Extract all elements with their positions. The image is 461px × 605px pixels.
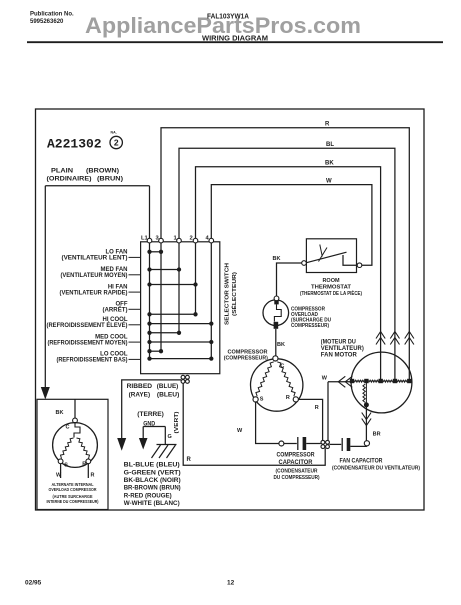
compressor terminal R: [293, 397, 298, 402]
svg-text:INTERNE DU COMPRESSEUR): INTERNE DU COMPRESSEUR): [47, 499, 99, 504]
wire brown L1 lead: [45, 186, 149, 388]
connector chevrons on fan motor drop: [405, 332, 414, 345]
wire compressor S to capacitor: [256, 402, 279, 444]
svg-text:R: R: [325, 121, 330, 127]
svg-text:12: 12: [227, 580, 235, 587]
svg-text:(VENTILATEUR RAPIDE): (VENTILATEUR RAPIDE): [60, 290, 128, 296]
wire junction to fan capacitor: [329, 443, 341, 445]
svg-text:R-RED (ROUGE): R-RED (ROUGE): [124, 492, 172, 499]
wire BL terminal1 to fan motor: [179, 148, 395, 379]
selector switch box: [141, 242, 220, 374]
connector chevrons on fan motor drop: [390, 332, 399, 345]
svg-text:(VENTILATEUR LENT): (VENTILATEUR LENT): [62, 256, 128, 262]
arrow brown lead to supply: [41, 387, 50, 400]
wire R terminal3 to fan motor: [161, 128, 409, 379]
svg-text:G-GREEN (VERT): G-GREEN (VERT): [124, 469, 181, 476]
svg-text:BL-BLUE (BLEU): BL-BLUE (BLEU): [124, 462, 180, 469]
wire plate to junction: [306, 443, 321, 445]
wire L1 lead-in: [149, 186, 151, 240]
connector block under switch: [181, 375, 185, 379]
compressor winding C-R: [277, 362, 295, 397]
compressor capacitor plates: [297, 437, 299, 450]
svg-text:W: W: [56, 473, 62, 479]
svg-text:DU COMPRESSEUR): DU COMPRESSEUR): [274, 475, 320, 481]
switch contact HI COOL fan row: [150, 313, 196, 315]
svg-text:(MOTEUR DU: (MOTEUR DU: [321, 339, 356, 345]
svg-text:C: C: [280, 364, 284, 370]
svg-text:(REFROIDISSEMENT MOYEN): (REFROIDISSEMENT MOYEN): [48, 340, 128, 346]
svg-text:2: 2: [190, 235, 193, 241]
svg-text:COMPRESSOR: COMPRESSOR: [277, 453, 316, 459]
svg-text:ROOM: ROOM: [322, 278, 340, 284]
svg-text:BR: BR: [373, 432, 381, 438]
diagram border: [36, 109, 425, 510]
thermostat terminal right: [357, 263, 362, 268]
svg-text:FAN CAPACITOR: FAN CAPACITOR: [340, 458, 384, 464]
svg-text:OVERLOAD COMPRESSOR: OVERLOAD COMPRESSOR: [49, 487, 98, 492]
switch column 1: [178, 243, 180, 333]
svg-text:(SÉLECTEUR): (SÉLECTEUR): [230, 272, 238, 316]
svg-text:(RAYE): (RAYE): [129, 392, 151, 398]
wire W fan motor: [328, 381, 351, 383]
switch contact LO COOL comp row: [150, 358, 212, 360]
overload element: [274, 304, 281, 321]
compressor circle: [251, 359, 303, 411]
svg-text:(BLEU): (BLEU): [157, 392, 179, 398]
alt lead W: [60, 464, 62, 478]
svg-text:BK: BK: [277, 342, 285, 348]
svg-text:(CONDENSATEUR: (CONDENSATEUR: [276, 469, 318, 475]
fan motor tap dot: [364, 402, 369, 407]
svg-text:C: C: [66, 425, 70, 431]
wire ribbed blue lead: [122, 380, 181, 439]
fan capacitor plates: [341, 438, 343, 451]
svg-text:(VENTILATEUR MOYEN): (VENTILATEUR MOYEN): [61, 273, 128, 279]
svg-text:PLAIN: PLAIN: [51, 169, 73, 175]
svg-text:(THERMOSTAT DE LA PIÈCE): (THERMOSTAT DE LA PIÈCE): [300, 289, 362, 297]
svg-text:(COMPRESSEUR): (COMPRESSEUR): [224, 356, 268, 362]
svg-text:COMPRESSEUR): COMPRESSEUR): [291, 323, 329, 329]
svg-text:R: R: [91, 473, 95, 479]
overload top contact: [274, 300, 278, 304]
wire capacitor link: [284, 443, 297, 445]
header rule: [27, 41, 443, 43]
svg-text:NA.: NA.: [111, 131, 117, 135]
arrow blue lead to supply: [117, 438, 126, 451]
wire fan capacitor to terminal: [350, 445, 367, 448]
wire R switch to capacitor junction: [183, 383, 325, 465]
fan capacitor terminal: [364, 441, 369, 446]
fan motor circle: [351, 352, 412, 413]
svg-text:R: R: [315, 405, 319, 411]
alternate compressor motor circle: [53, 423, 98, 468]
capacitor junction block: [321, 440, 325, 444]
svg-text:02/95: 02/95: [25, 580, 42, 587]
svg-text:(BRUN): (BRUN): [97, 177, 123, 183]
thermostat terminal left: [302, 261, 307, 266]
alt terminal R: [86, 459, 91, 464]
compressor winding C-S: [256, 362, 274, 397]
alt lead R: [87, 464, 89, 478]
switch contact LO FAN row: [150, 251, 162, 253]
svg-text:S: S: [64, 463, 68, 469]
wire BK terminal2 to fan motor: [196, 167, 381, 379]
svg-text:(CONDENSATEUR DU VENTILATEUR): (CONDENSATEUR DU VENTILATEUR): [332, 465, 420, 471]
wire compressor R to junction: [298, 399, 322, 440]
switch contact MED COOL fan row: [150, 332, 180, 334]
svg-text:COMPRESSOR: COMPRESSOR: [228, 349, 269, 355]
room thermostat box: [306, 239, 356, 273]
svg-text:(BLUE): (BLUE): [157, 384, 179, 390]
svg-text:W: W: [326, 179, 332, 185]
svg-text:S: S: [260, 397, 264, 403]
thermostat actuator marks: [319, 245, 328, 262]
alt overload element: [74, 423, 80, 438]
switch contact MED FAN row: [150, 269, 180, 271]
fan motor winding line: [352, 380, 412, 382]
svg-text:R: R: [286, 395, 290, 401]
switch contact MED COOL comp row: [150, 341, 212, 343]
alt winding C-R: [77, 438, 90, 459]
switch column 2: [195, 243, 197, 314]
svg-text:L1: L1: [141, 235, 149, 241]
alt winding C-S: [61, 438, 74, 459]
switch contact HI FAN row: [150, 284, 196, 286]
connector chevrons on fan motor drop: [376, 332, 385, 345]
wire ground bracket: [143, 427, 165, 445]
svg-text:BR-BROWN (BRUN): BR-BROWN (BRUN): [124, 485, 181, 492]
overload bottom contact: [274, 322, 279, 329]
wire overload to compressor: [275, 329, 277, 356]
fan motor terminals: [350, 379, 354, 383]
thermostat blade: [306, 252, 347, 263]
switch column L1: [149, 243, 151, 359]
switch column 4: [210, 243, 212, 359]
svg-text:(ARRÊT): (ARRÊT): [103, 306, 128, 314]
svg-text:A221302: A221302: [47, 137, 102, 152]
ground symbol: [157, 444, 177, 446]
svg-text:(VERT): (VERT): [174, 411, 180, 433]
svg-text:(ORDINAIRE): (ORDINAIRE): [47, 177, 92, 183]
compressor overload circle: [263, 300, 289, 326]
svg-text:SELECTOR SWITCH: SELECTOR SWITCH: [225, 263, 231, 325]
svg-text:VENTILATEUR): VENTILATEUR): [321, 346, 364, 352]
svg-text:5995263620: 5995263620: [30, 19, 64, 25]
selector switch terminals L1 3 1 2 4: [147, 238, 152, 243]
svg-text:THERMOSTAT: THERMOSTAT: [311, 284, 352, 290]
svg-text:FAL103YW1A: FAL103YW1A: [207, 14, 249, 21]
svg-text:R: R: [187, 457, 192, 463]
svg-text:(TERRE): (TERRE): [137, 412, 164, 418]
svg-text:BK: BK: [56, 410, 64, 416]
switch contact HI COOL comp row: [150, 323, 212, 325]
svg-text:RIBBED: RIBBED: [127, 384, 153, 390]
alternate compressor box: [37, 399, 108, 509]
wire thermostat to overload: [277, 263, 302, 296]
wire W terminal4 to thermostat: [211, 185, 372, 266]
svg-text:R: R: [82, 462, 86, 468]
svg-text:W: W: [322, 375, 328, 381]
overload terminal: [274, 296, 279, 301]
alt terminal S: [58, 459, 63, 464]
wire BK alt: [74, 399, 76, 418]
compressor terminal C: [273, 356, 278, 361]
alt compressor terminal C: [73, 418, 78, 423]
svg-text:BL: BL: [326, 142, 334, 148]
fan motor winding teeth: [355, 380, 365, 382]
arrow green lead to supply: [139, 438, 148, 450]
compressor capacitor terminal: [279, 441, 284, 446]
svg-text:(REFROIDISSEMENT BAS): (REFROIDISSEMENT BAS): [57, 358, 128, 364]
svg-text:BK: BK: [325, 161, 334, 167]
svg-text:W: W: [237, 428, 243, 434]
thermostat fixed contact: [343, 255, 357, 265]
fan motor W connector chevrons: [338, 376, 352, 387]
svg-text:(BROWN): (BROWN): [86, 169, 119, 175]
svg-text:CAPACITOR: CAPACITOR: [279, 460, 314, 466]
svg-text:2: 2: [114, 138, 119, 148]
svg-text:BK-BLACK (NOIR): BK-BLACK (NOIR): [124, 477, 181, 484]
svg-text:Publication No.: Publication No.: [30, 12, 74, 18]
svg-text:FAN MOTOR: FAN MOTOR: [321, 352, 358, 358]
svg-text:G: G: [168, 434, 172, 440]
fan motor tap winding: [363, 384, 365, 403]
wire BR fan motor to capacitor: [365, 405, 367, 441]
compressor terminal S: [253, 397, 258, 402]
svg-text:(REFROIDISSEMENT ÉLEVÉ): (REFROIDISSEMENT ÉLEVÉ): [47, 321, 128, 329]
svg-text:W-WHITE (BLANC): W-WHITE (BLANC): [124, 500, 180, 507]
svg-text:BK: BK: [273, 256, 281, 262]
wire W fan to junction: [327, 382, 329, 441]
switch column 3: [160, 243, 162, 351]
BR connector chevrons: [362, 413, 371, 426]
switch contact LO COOL fan row: [150, 350, 162, 352]
